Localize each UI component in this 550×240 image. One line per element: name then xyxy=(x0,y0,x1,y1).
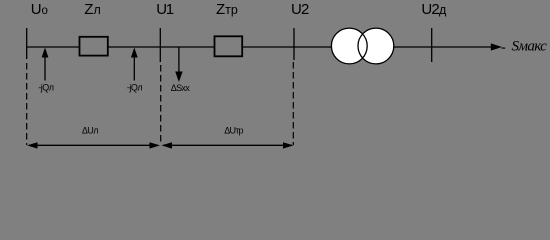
dimension arrow ΔUл xyxy=(29,144,158,146)
arrow ΔSхх down at x=179 xyxy=(178,47,180,73)
dashed extension line below U0 xyxy=(26,63,28,145)
arrowhead right end of feeder xyxy=(491,43,502,50)
wire main horizontal line xyxy=(27,46,497,48)
svg-text:Zл: Zл xyxy=(84,1,100,18)
svg-text:U2д: U2д xyxy=(421,1,447,18)
svg-text:U2: U2 xyxy=(291,1,309,18)
svg-text:-jQл: -jQл xyxy=(38,83,53,93)
transformer T1 circles xyxy=(331,28,367,64)
dashed extension line below U1 xyxy=(160,65,162,145)
node U2 bus tick xyxy=(293,28,295,60)
node U0 bus tick xyxy=(26,28,28,59)
arrow -jQл left (injection at x=45) xyxy=(44,55,46,81)
resistor Zл box xyxy=(80,37,108,56)
svg-text:ΔSхх: ΔSхх xyxy=(171,83,190,93)
node U1 bus tick xyxy=(159,28,161,62)
resistor Zтр box xyxy=(215,36,243,56)
dimension arrow ΔUтр xyxy=(163,144,292,146)
dashed extension line below U2 xyxy=(292,62,294,145)
svg-text:ΔUл: ΔUл xyxy=(82,126,98,136)
svg-text:Sмакс: Sмакс xyxy=(512,39,548,55)
svg-text:Zтр: Zтр xyxy=(216,1,238,18)
node U2д bus tick xyxy=(431,28,433,62)
svg-text:U1: U1 xyxy=(156,1,173,18)
svg-text:ΔUтр: ΔUтр xyxy=(224,126,243,136)
arrow -jQл right (injection at x=134) xyxy=(133,55,135,81)
svg-text:-jQл: -jQл xyxy=(127,83,142,93)
